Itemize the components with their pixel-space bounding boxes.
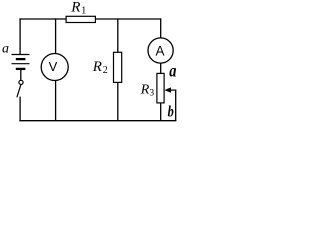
wire right side (top corner to ammeter) <box>160 18 162 38</box>
battery cell plate short 2 <box>16 68 26 70</box>
wire voltmeter branch top <box>55 18 57 54</box>
resistor R2 body <box>114 52 122 82</box>
svg-text:b: b <box>168 103 174 121</box>
battery cell plate short 1 <box>16 58 26 60</box>
resistor R1 body <box>66 16 95 22</box>
ammeter A body <box>148 38 173 63</box>
wire left side (top corner to battery) <box>19 18 21 54</box>
svg-text:A: A <box>155 43 164 58</box>
wire switch to bottom rail <box>19 97 21 122</box>
battery cell plate long 2 <box>12 63 30 65</box>
svg-text:R1: R1 <box>70 0 86 17</box>
wire top rail <box>19 18 161 20</box>
wire ammeter to rheostat R3 <box>160 63 162 73</box>
switch S blade (open) <box>17 85 21 97</box>
svg-text:R3: R3 <box>140 83 155 99</box>
wire slider to bottom rail <box>175 90 177 121</box>
wire bottom rail <box>19 120 176 122</box>
wire R2 to bottom rail <box>117 82 119 121</box>
switch S pivot circle <box>19 80 23 84</box>
wire battery to switch <box>20 69 22 81</box>
wire R3 to bottom rail <box>160 103 162 121</box>
svg-text:R2: R2 <box>92 59 108 76</box>
svg-text:a: a <box>169 61 176 81</box>
wire R2 branch top <box>117 18 119 52</box>
svg-text:a: a <box>2 42 9 57</box>
wire voltmeter to bottom rail <box>55 80 57 121</box>
rheostat slider arrow <box>170 89 176 91</box>
rheostat R3 body <box>157 73 164 103</box>
battery cell plate long 1 <box>12 54 30 56</box>
svg-text:V: V <box>49 59 58 74</box>
voltmeter V body <box>41 54 68 81</box>
